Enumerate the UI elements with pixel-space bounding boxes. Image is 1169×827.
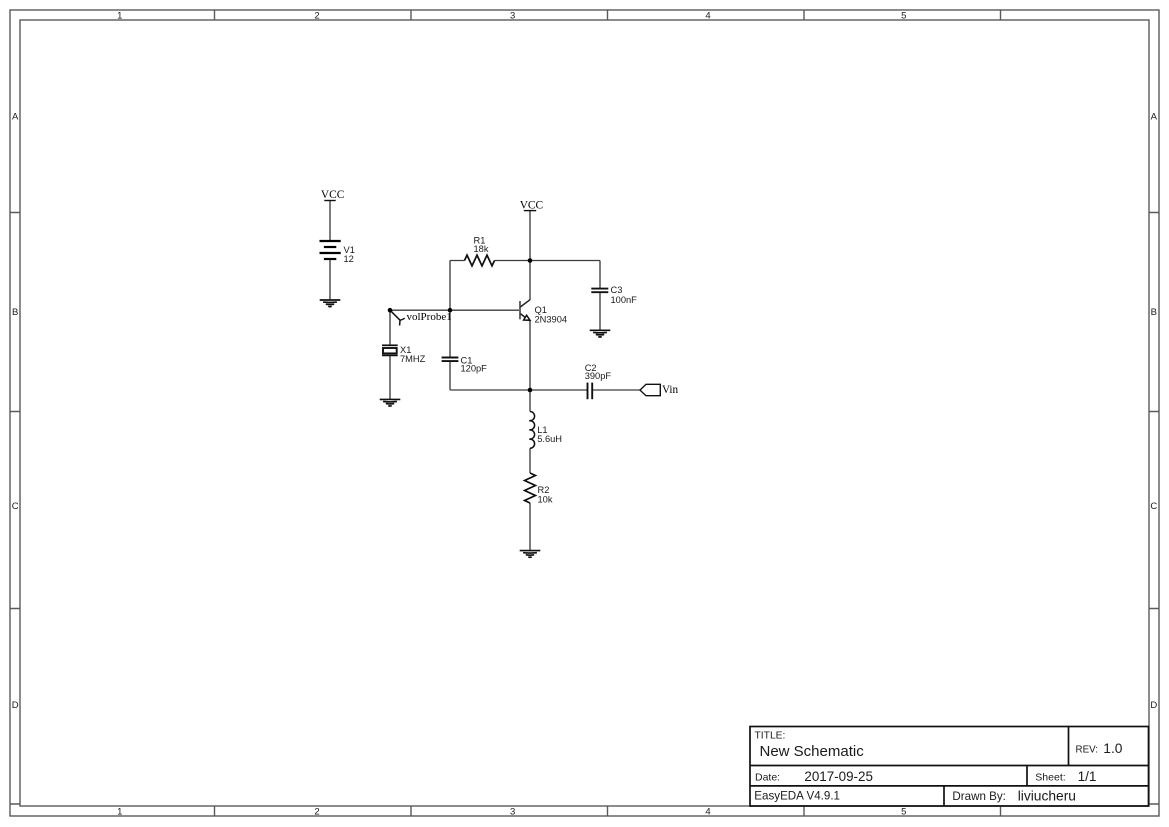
svg-text:2017-09-25: 2017-09-25 xyxy=(804,769,873,784)
svg-text:2N3904: 2N3904 xyxy=(535,315,568,325)
svg-text:3: 3 xyxy=(510,806,515,817)
svg-text:B: B xyxy=(12,307,18,318)
svg-text:5: 5 xyxy=(901,806,906,817)
svg-text:1: 1 xyxy=(117,11,122,22)
svg-text:18k: 18k xyxy=(474,244,489,254)
svg-text:4: 4 xyxy=(705,11,710,22)
svg-text:390pF: 390pF xyxy=(585,371,612,381)
svg-text:5: 5 xyxy=(901,11,906,22)
svg-text:7MHZ: 7MHZ xyxy=(400,354,426,364)
svg-text:New Schematic: New Schematic xyxy=(760,743,865,760)
svg-text:TITLE:: TITLE: xyxy=(755,731,786,742)
svg-text:liviucheru: liviucheru xyxy=(1018,788,1076,803)
svg-text:Vin: Vin xyxy=(662,384,679,396)
svg-text:3: 3 xyxy=(510,11,515,22)
svg-text:D: D xyxy=(1150,700,1157,711)
svg-text:D: D xyxy=(12,700,19,711)
svg-text:EasyEDA V4.9.1: EasyEDA V4.9.1 xyxy=(754,789,840,802)
svg-text:Sheet:: Sheet: xyxy=(1035,771,1065,783)
svg-text:100nF: 100nF xyxy=(611,295,638,305)
svg-text:5.6uH: 5.6uH xyxy=(537,434,562,444)
svg-text:Drawn By:: Drawn By: xyxy=(952,790,1005,803)
svg-text:Date:: Date: xyxy=(755,771,780,783)
svg-text:C: C xyxy=(12,501,19,512)
svg-text:VCC: VCC xyxy=(520,200,543,212)
svg-text:1.0: 1.0 xyxy=(1103,741,1123,756)
svg-text:A: A xyxy=(1151,111,1158,122)
svg-text:Q1: Q1 xyxy=(535,305,547,315)
svg-text:4: 4 xyxy=(705,806,710,817)
svg-text:2: 2 xyxy=(314,806,319,817)
svg-text:1/1: 1/1 xyxy=(1078,769,1097,784)
svg-text:VCC: VCC xyxy=(321,189,344,201)
svg-text:REV:: REV: xyxy=(1076,744,1099,755)
svg-text:C: C xyxy=(1150,501,1157,512)
svg-text:120pF: 120pF xyxy=(461,363,488,373)
svg-text:10k: 10k xyxy=(538,494,553,504)
svg-text:B: B xyxy=(1151,307,1157,318)
svg-text:A: A xyxy=(12,111,19,122)
svg-text:volProbe1: volProbe1 xyxy=(407,311,452,323)
svg-text:2: 2 xyxy=(314,11,319,22)
svg-text:1: 1 xyxy=(117,806,122,817)
svg-text:C3: C3 xyxy=(611,285,623,295)
svg-text:12: 12 xyxy=(344,254,354,264)
